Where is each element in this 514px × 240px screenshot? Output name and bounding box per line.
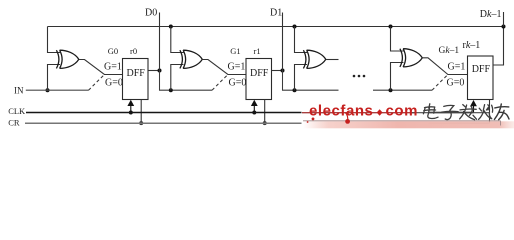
node bypass junction stage2 xyxy=(169,88,173,92)
xor-gate Gk-1 stage k xyxy=(400,49,422,67)
xor-gate stage3 xyxy=(303,50,325,68)
node bypass junction stage k xyxy=(389,88,393,92)
watermark logo splashes xyxy=(312,118,315,121)
svg-text:r0: r0 xyxy=(130,46,137,56)
svg-text:DFF: DFF xyxy=(250,68,269,79)
node top line feedback drop stage3 xyxy=(293,25,297,29)
wire reset pin U1 to CR xyxy=(140,100,142,124)
svg-text:G=1: G=1 xyxy=(448,61,466,72)
svg-text:G=1: G=1 xyxy=(104,61,122,72)
node CR junction stage1 xyxy=(139,121,143,125)
node Q0 output junction xyxy=(158,69,162,73)
wire feedback drop stage1 to XOR1 top input xyxy=(48,27,61,53)
svg-text:r1: r1 xyxy=(254,46,261,56)
node IN junction stage1 xyxy=(46,88,50,92)
svg-text:rk–1: rk–1 xyxy=(463,40,481,51)
wire XOR3 output stub xyxy=(326,59,339,61)
wire bypass stage2 to stage3 xyxy=(283,71,339,91)
dff U1 box xyxy=(123,59,149,100)
wire bypass line stage k start xyxy=(373,89,432,91)
svg-text:Gk–1: Gk–1 xyxy=(439,46,460,56)
svg-text:Dk–1: Dk–1 xyxy=(480,9,502,20)
node ellipsis continuation xyxy=(353,75,366,78)
wire riser to XOR3 bottom input xyxy=(295,65,308,91)
wire CLK line xyxy=(26,112,474,114)
svg-text:com: com xyxy=(386,102,419,119)
watermark hanzi dian xyxy=(423,104,438,119)
wire D0 tap vertical xyxy=(159,13,161,71)
wire Dk-1 output stub xyxy=(503,12,505,27)
svg-text:DFF: DFF xyxy=(472,64,491,75)
wire dashed G=0 bypass diagonal stage1 xyxy=(89,75,105,91)
svg-text:G=0: G=0 xyxy=(229,77,247,88)
watermark bar top edge line xyxy=(303,121,501,126)
svg-text:DFF: DFF xyxy=(127,68,146,79)
watermark hanzi fa xyxy=(460,105,477,120)
wire XOR2 output diagonal to switch xyxy=(202,60,246,75)
watermark hanzi you xyxy=(494,104,509,120)
watermark background panel xyxy=(302,103,429,127)
wire Q output Uk to feedback xyxy=(493,27,504,66)
wire XORk output diagonal to switch xyxy=(422,58,467,75)
wire riser to XOR2 bottom input xyxy=(171,65,184,91)
xor-gate G1 stage2 xyxy=(180,50,202,68)
wire CR line xyxy=(25,122,490,124)
watermark strikethrough continuation under hanzi xyxy=(412,112,490,114)
node top line feedback drop stage2 xyxy=(169,25,173,29)
wire feedback drop stage3 to XOR3 top input xyxy=(295,27,308,53)
wire reset pin Uk to CR xyxy=(489,100,491,124)
svg-text:CR: CR xyxy=(8,117,20,127)
svg-text:G=1: G=1 xyxy=(228,61,246,72)
wire bypass stage1 to stage2 xyxy=(160,71,213,91)
svg-text:D0: D0 xyxy=(145,7,157,18)
wire IN riser to XOR1 bottom input xyxy=(48,65,61,91)
wire top feedback line xyxy=(48,26,504,28)
wire Q output U1 xyxy=(148,70,160,72)
watermark logo separator drop xyxy=(377,109,383,116)
node CLK junction stage2 xyxy=(252,111,256,115)
wire dashed G=0 bypass diagonal stage2 xyxy=(212,75,228,91)
dff U2 box xyxy=(246,59,272,100)
wire IN line xyxy=(26,89,89,91)
svg-text:D1: D1 xyxy=(270,7,282,18)
watermark logo strikethrough xyxy=(302,112,416,114)
wire feedback drop stage2 to XOR2 top input xyxy=(171,27,184,53)
wire Q output U2 xyxy=(272,70,283,72)
svg-text:G1: G1 xyxy=(230,46,240,56)
node CLK junction stage1 xyxy=(129,111,133,115)
wire XOR1 output diagonal to switch xyxy=(79,60,123,75)
clock pin arrow U2 xyxy=(253,105,255,113)
watermark hanzi zi xyxy=(442,105,459,119)
xor-gate G0 stage1 xyxy=(56,50,78,68)
svg-text:G=0: G=0 xyxy=(447,77,465,88)
watermark hanzi shao xyxy=(479,105,493,120)
wire riser to XORk bottom input xyxy=(391,63,404,91)
wire dashed G=0 bypass diagonal stage k xyxy=(432,75,448,91)
dff Uk box xyxy=(468,56,494,100)
svg-text:IN: IN xyxy=(14,85,24,95)
wire reset pin U2 to CR xyxy=(264,100,266,124)
node feedback corner Dk-1 xyxy=(502,25,506,29)
node CR junction stage2 xyxy=(263,121,267,125)
svg-text:G0: G0 xyxy=(108,46,118,56)
svg-text:elecfans: elecfans xyxy=(309,102,373,119)
svg-text:G=0: G=0 xyxy=(105,77,123,88)
clock pin arrow Uk xyxy=(473,105,475,113)
node top line feedback drop stage k xyxy=(389,25,393,29)
node bypass junction stage3 xyxy=(293,88,297,92)
svg-text:CLK: CLK xyxy=(8,106,26,116)
clock pin arrow U1 xyxy=(130,105,132,113)
node Q1 output junction xyxy=(281,69,285,73)
wire D1 tap vertical xyxy=(282,13,284,71)
wire feedback drop stage k to XORk top input xyxy=(391,27,404,52)
